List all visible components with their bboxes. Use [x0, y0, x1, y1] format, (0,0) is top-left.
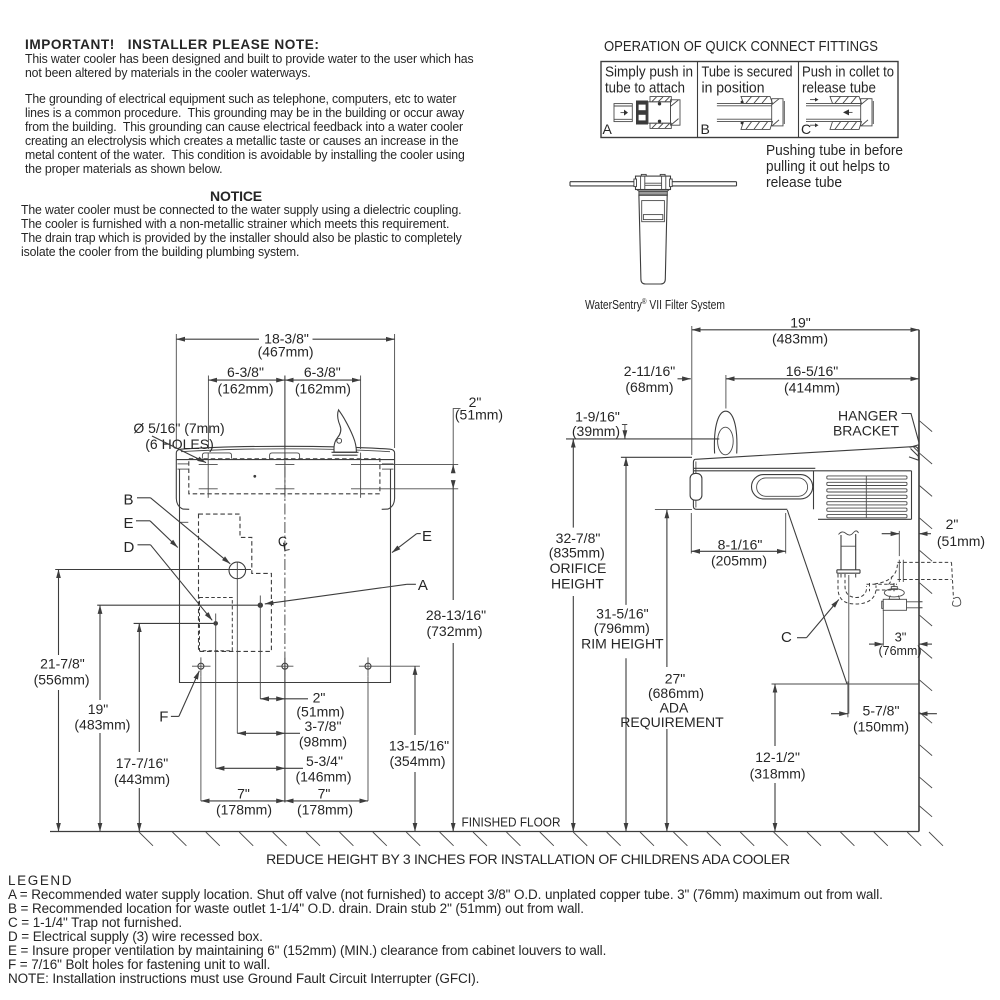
svg-text:in position: in position: [702, 80, 765, 97]
svg-text:(39mm): (39mm): [572, 423, 620, 439]
svg-text:(162mm): (162mm): [295, 380, 351, 396]
side view: cabinet front and body: [693, 447, 918, 520]
dimension 3in (76mm): [869, 630, 932, 659]
fitting drawing A: loose tube and fitting: [614, 97, 680, 129]
basin right end cap: [382, 460, 395, 510]
svg-text:21-7/8": 21-7/8": [40, 656, 85, 672]
dimension 2-11/16 (68mm): [624, 363, 691, 395]
hole diameter callout: [133, 420, 224, 463]
dimension 8-1/16 (205mm): [691, 513, 785, 569]
lower mounting holes row: [199, 488, 459, 490]
svg-text:7": 7": [237, 786, 250, 802]
rim reference line: [621, 456, 692, 458]
dimension 1-9/16 (39mm): [572, 409, 627, 440]
svg-text:C: C: [801, 121, 811, 137]
svg-text:(68mm): (68mm): [625, 379, 673, 395]
svg-text:6-3/8": 6-3/8": [227, 364, 264, 380]
svg-text:(178mm): (178mm): [216, 802, 272, 818]
apron slope to wall: [787, 510, 847, 684]
dimension 5-7/8 (150mm): [831, 681, 937, 734]
dimension 2in supply offset: [260, 690, 344, 720]
svg-text:C: C: [781, 629, 792, 646]
svg-text:B: B: [701, 121, 710, 137]
svg-text:(76mm): (76mm): [878, 644, 921, 658]
svg-text:HEIGHT: HEIGHT: [551, 576, 604, 592]
svg-text:8-1/16": 8-1/16": [718, 537, 763, 553]
label F with leader: [159, 671, 199, 726]
dimension 6-3/8 left: [208, 364, 285, 449]
svg-text:Simply push in: Simply push in: [605, 64, 693, 81]
svg-text:19": 19": [790, 315, 811, 331]
svg-text:E: E: [422, 528, 432, 545]
bubbler (front view): [332, 410, 359, 455]
louver grille: [827, 476, 907, 518]
filter mounting bar: [570, 182, 737, 186]
svg-text:release tube: release tube: [766, 174, 842, 191]
label E left with leader: [124, 515, 178, 548]
side view: bubbler loop: [714, 411, 737, 455]
dimension 2in drain stub: [882, 516, 985, 556]
filter head: [634, 174, 672, 189]
svg-text:16-5/16": 16-5/16": [786, 363, 838, 379]
svg-text:OPERATION OF QUICK CONNECT FIT: OPERATION OF QUICK CONNECT FITTINGS: [604, 38, 878, 55]
dimension 17-7/16 (443mm): [114, 623, 170, 831]
filter label: [642, 201, 665, 222]
label D with leader: [124, 539, 213, 620]
dimension 6-3/8 right: [285, 364, 361, 449]
wall line: [918, 330, 920, 832]
centerline symbol: [277, 533, 291, 554]
svg-text:3": 3": [895, 630, 907, 645]
front view: basin top: [176, 446, 394, 459]
drain center line: [848, 575, 850, 714]
filter neck band: [637, 190, 670, 196]
front push button (side view): [690, 473, 702, 500]
side push bar capsule: [752, 475, 813, 499]
paragraph: grounding: [25, 92, 465, 176]
svg-text:A: A: [418, 577, 428, 594]
front view: hanger plate (dashed): [189, 459, 380, 494]
floor hatching: [139, 832, 943, 846]
svg-text:HANGER: HANGER: [838, 408, 898, 424]
dimension 28-13/16 (732mm): [426, 489, 486, 832]
svg-text:Pushing tube in before: Pushing tube in before: [766, 142, 903, 159]
dimension 13-15/16 (354mm): [389, 666, 449, 831]
hanger bracket label: [833, 408, 919, 443]
svg-text:WaterSentry® VII Filter System: WaterSentry® VII Filter System: [585, 297, 725, 312]
front view: cabinet body: [180, 469, 391, 682]
electrical box zone (dashed): [200, 598, 233, 651]
reduce height note: [218, 852, 838, 866]
svg-text:3-7/8": 3-7/8": [305, 718, 342, 734]
dimension 21-7/8 (556mm): [34, 570, 90, 832]
top-left installer note heading: [25, 38, 319, 52]
svg-text:pulling it out helps to: pulling it out helps to: [766, 158, 890, 175]
hanger bracket tab left: [202, 453, 231, 459]
dimension 16-5/16 (414mm): [726, 363, 919, 409]
svg-text:6-3/8": 6-3/8": [304, 364, 341, 380]
svg-text:(51mm): (51mm): [455, 406, 503, 422]
orifice reference line: [566, 438, 719, 440]
svg-text:(98mm): (98mm): [299, 734, 347, 750]
svg-text:Push in collet to: Push in collet to: [802, 64, 894, 81]
paragraph: cooler waterways: [25, 52, 473, 80]
svg-text:7": 7": [318, 786, 331, 802]
svg-text:(443mm): (443mm): [114, 771, 170, 787]
fitting drawing C: push collet to release: [806, 96, 873, 129]
svg-text:28-13/16": 28-13/16": [426, 607, 486, 623]
fitting drawing B: tube secured in fitting: [717, 96, 784, 129]
dimension 7in right: [285, 786, 368, 818]
svg-text:BRACKET: BRACKET: [833, 423, 900, 439]
svg-text:(146mm): (146mm): [295, 769, 351, 785]
label A with leader: [265, 577, 428, 604]
svg-text:L: L: [282, 539, 291, 554]
svg-text:2-11/16": 2-11/16": [624, 363, 675, 379]
supply stop valve: [882, 587, 924, 646]
label B with leader: [124, 492, 231, 564]
dimension 19 (483mm): [74, 605, 130, 831]
svg-text:5-3/4": 5-3/4": [306, 753, 343, 769]
dimension 18-3/8 (467mm): [176, 331, 394, 449]
paragraph: notice text: [21, 203, 462, 259]
bolt hole right: [359, 657, 420, 801]
svg-text:(150mm): (150mm): [853, 719, 909, 735]
dimension 19 (483mm) top: [692, 315, 919, 456]
dimension 5-3/4 (146mm): [216, 753, 352, 785]
dimension 31-5/16 rim height: [581, 457, 664, 831]
fittings table border: [601, 62, 898, 138]
svg-text:(467mm): (467mm): [258, 344, 314, 360]
tailpiece dashed continuation: [841, 574, 856, 579]
svg-text:(318mm): (318mm): [750, 765, 806, 781]
side view: basin top slope: [695, 447, 914, 460]
hanger bracket at wall: [909, 445, 919, 460]
label C with leader: [781, 600, 839, 647]
svg-text:(414mm): (414mm): [784, 380, 840, 396]
svg-text:tube to attach: tube to attach: [605, 80, 685, 97]
svg-text:19": 19": [88, 701, 109, 717]
svg-text:2": 2": [946, 516, 959, 532]
dimension 7in left: [201, 786, 285, 818]
floor line: [50, 831, 919, 833]
svg-text:(732mm): (732mm): [426, 623, 482, 639]
wall hatching: [920, 421, 933, 817]
svg-text:13-15/16": 13-15/16": [389, 738, 449, 754]
svg-text:FINISHED FLOOR: FINISHED FLOOR: [462, 815, 561, 830]
svg-text:Tube is secured: Tube is secured: [702, 64, 793, 81]
dimension 2in hole rows (right of front view): [453, 394, 503, 489]
centerline: [284, 376, 286, 803]
svg-text:F: F: [159, 709, 168, 726]
svg-text:A: A: [603, 121, 613, 137]
dimension 3-7/8 (98mm): [237, 718, 347, 750]
svg-text:5-7/8": 5-7/8": [863, 703, 900, 719]
electrical supply D (node): [134, 614, 218, 769]
weep hole dot: [253, 475, 256, 478]
upper mounting holes row: [199, 464, 459, 466]
legend text block: [8, 874, 883, 986]
svg-text:(178mm): (178mm): [297, 802, 353, 818]
dimension 12-1/2 (318mm): [750, 684, 919, 832]
svg-text:(205mm): (205mm): [711, 553, 767, 569]
supply/waste rough-in zone (stepped dashed): [199, 514, 272, 651]
svg-text:12-1/2": 12-1/2": [755, 749, 800, 765]
bolt hole center: [276, 657, 293, 676]
svg-text:(796mm): (796mm): [594, 620, 650, 636]
hanger bracket tab middle: [270, 453, 300, 459]
basin left end cap: [176, 460, 189, 510]
waste outlet B (circle): [55, 562, 251, 734]
svg-text:(483mm): (483mm): [772, 331, 828, 347]
drain tailpiece: [837, 531, 860, 573]
svg-text:B: B: [124, 492, 134, 509]
svg-text:RIM HEIGHT: RIM HEIGHT: [581, 636, 664, 652]
mounting hole column lines: [208, 453, 360, 498]
water supply A (node): [97, 596, 263, 699]
dimension 32-7/8 orifice height: [549, 439, 607, 832]
svg-text:(354mm): (354mm): [389, 753, 445, 769]
label E right with leader: [392, 528, 432, 553]
svg-text:E: E: [124, 515, 134, 532]
svg-text:(162mm): (162mm): [217, 380, 273, 396]
svg-text:17-7/16": 17-7/16": [116, 755, 168, 771]
svg-text:(556mm): (556mm): [34, 672, 90, 688]
svg-text:REQUIREMENT: REQUIREMENT: [620, 714, 724, 730]
cabinet side tick: [180, 521, 189, 523]
svg-text:D: D: [124, 539, 135, 556]
svg-text:release tube: release tube: [802, 80, 876, 97]
svg-text:Ø 5/16" (7mm): Ø 5/16" (7mm): [133, 420, 224, 436]
NOTICE heading: [16, 189, 456, 203]
svg-text:(835mm): (835mm): [549, 545, 605, 561]
svg-text:(483mm): (483mm): [74, 717, 130, 733]
bolt hole F (left): [192, 657, 211, 801]
dimension 27 ADA requirement: [620, 510, 724, 832]
svg-text:(51mm): (51mm): [937, 533, 985, 549]
filter body: [639, 195, 667, 284]
P-trap (dashed): [838, 560, 961, 607]
svg-text:ORIFICE: ORIFICE: [550, 560, 607, 576]
